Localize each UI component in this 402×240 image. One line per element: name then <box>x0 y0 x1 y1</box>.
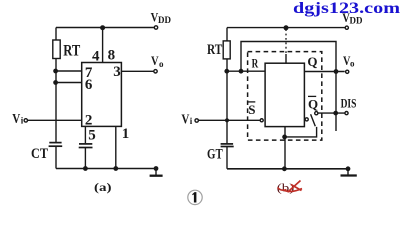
wire Q to Vo (b) <box>304 71 344 73</box>
wire VDD rail (b) <box>227 27 345 29</box>
svg-text:o: o <box>350 59 355 69</box>
wire R input (b) <box>227 70 265 72</box>
svg-text:DD: DD <box>158 15 171 25</box>
wire switch pivot (b) <box>285 127 317 137</box>
svg-text:DD: DD <box>350 16 363 26</box>
svg-text:2: 2 <box>85 112 93 128</box>
ground (a) <box>155 169 157 176</box>
555 internal dashed boundary (b) <box>248 52 322 141</box>
svg-text:(a): (a) <box>94 180 112 194</box>
wire pin5 cap to ground (a) <box>84 148 86 169</box>
svg-text:5: 5 <box>88 128 96 144</box>
node switch wire junction (b) <box>283 135 286 138</box>
svg-text:6: 6 <box>85 77 93 93</box>
switch contact circle (b) <box>315 112 318 115</box>
svg-text:4: 4 <box>92 49 100 65</box>
wire flip-flop bottom stub to ground (b) <box>284 127 286 169</box>
wire CT bottom to ground (a) <box>55 146 57 168</box>
svg-text:CT: CT <box>31 146 48 162</box>
wire RT top drop (b) <box>226 28 228 41</box>
wire CT bottom to ground (b) <box>226 146 228 168</box>
flip-flop U2 (b) <box>265 63 304 126</box>
capacitor CT (a) <box>49 143 63 147</box>
node ground symbol junction (b) <box>346 167 349 170</box>
svg-text:8: 8 <box>108 48 116 64</box>
wire DIS line (b) <box>318 112 345 114</box>
resistor RT (a) <box>53 40 60 59</box>
wire VDD rail (a) <box>56 27 154 29</box>
node pin6 junction (a) <box>54 81 57 84</box>
svg-text:RT: RT <box>63 42 80 59</box>
terminal Vi (b) <box>195 119 198 122</box>
svg-text:Q: Q <box>307 54 317 69</box>
svg-text:1: 1 <box>122 126 130 142</box>
wire pin 5 (a) <box>84 126 86 143</box>
wire RT top drop (a) <box>55 28 57 41</box>
terminal DIS (b) <box>345 112 348 115</box>
node pin1 ground junction (a) <box>114 167 117 170</box>
node rail junction (b) <box>284 26 288 30</box>
svg-text:Q: Q <box>308 96 318 111</box>
wire feedback loop (b) <box>241 42 336 132</box>
node Vo feedback junction (b) <box>334 70 337 73</box>
terminal VDD (a) <box>154 26 157 29</box>
svg-text:DIS: DIS <box>341 95 357 110</box>
resistor RT (b) <box>223 41 230 59</box>
svg-text:V: V <box>181 112 189 127</box>
ground (b) <box>347 169 349 175</box>
wire Vi to S input (b) <box>199 119 261 121</box>
node pin5 ground junction (a) <box>84 167 87 170</box>
terminal Vi (a) <box>24 119 27 122</box>
node DIS junction (b) <box>334 111 337 114</box>
node pin7 junction (a) <box>54 69 57 72</box>
svg-text:dgjs123.com: dgjs123.com <box>293 0 400 17</box>
wire pins 4,8 to rail (a) <box>102 28 104 63</box>
transistor discharge switch arm (b) <box>311 114 316 126</box>
node feedback junction (b) <box>239 70 242 73</box>
wire ground rail (b) <box>227 168 348 170</box>
capacitor pin5 (a) <box>79 144 93 148</box>
node rail junction (a) <box>101 26 105 30</box>
caption (b) red corrected <box>277 181 302 195</box>
node stub ground junction (b) <box>283 167 286 170</box>
svg-text:o: o <box>159 59 164 69</box>
svg-text:3: 3 <box>113 64 121 80</box>
svg-text:GT: GT <box>207 147 223 163</box>
svg-text:RT: RT <box>207 42 222 58</box>
svg-text:V: V <box>12 111 20 126</box>
svg-text:S: S <box>248 102 255 117</box>
node Sbar bubble (b) <box>260 119 263 122</box>
wire Vi to pin 2 (a) <box>28 119 82 121</box>
wire RT bottom column (b) <box>226 59 228 143</box>
terminal VDD (b) <box>345 26 348 29</box>
wire pin 1 to ground (a) <box>115 126 117 168</box>
terminal Vo (b) <box>346 70 349 73</box>
svg-text:V: V <box>151 53 159 68</box>
node Qbar bubble (b) <box>305 118 308 121</box>
wire to pin 7 (a) <box>56 70 82 72</box>
op-amp 555 IC U1 (a) <box>82 63 122 127</box>
capacitor GT (b) <box>221 144 234 147</box>
wire to pin 6 (a) <box>56 82 82 84</box>
circled number 1 marker <box>188 190 202 204</box>
node ground symbol junction (a) <box>154 167 157 170</box>
svg-text:R: R <box>252 56 259 71</box>
wire pin 3 to Vo (a) <box>121 70 153 72</box>
wire RT-CT column (a) <box>55 59 57 143</box>
node CT crossing (b) <box>226 119 229 122</box>
terminal Vo (a) <box>154 70 157 73</box>
node RT bottom junction (b) <box>225 70 228 73</box>
wire VDD drop into flip-flop (b) <box>285 29 287 54</box>
wire ground rail (a) <box>56 168 156 170</box>
